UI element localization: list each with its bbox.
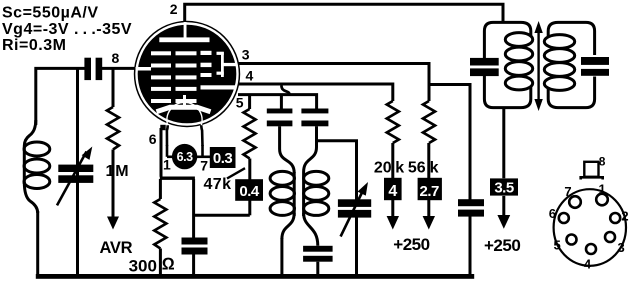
output transformer T2 secondary loops bbox=[544, 35, 574, 91]
wire pin5 row (lower) bbox=[238, 93, 288, 96]
wire cap to tube pin 8 bbox=[102, 67, 136, 70]
anode plate (white bar) bbox=[159, 37, 209, 42]
svg-text:7: 7 bbox=[200, 157, 208, 173]
svg-text:3: 3 bbox=[242, 47, 250, 63]
svg-text:AVR: AVR bbox=[100, 239, 133, 257]
capacitor C10 output secondary bbox=[581, 57, 609, 76]
heater label 6.3 (disc) bbox=[172, 144, 197, 169]
wire right rail lower bbox=[469, 216, 472, 275]
tube V1 envelope (black disc) bbox=[134, 21, 240, 146]
wire S-jog from pin4 wire down bbox=[281, 86, 289, 95]
spigot key pin8 bbox=[584, 162, 598, 177]
capacitor C1 coupling (series, vertical bars) bbox=[84, 58, 102, 80]
capacitor C9 output primary bbox=[470, 58, 499, 76]
svg-text:6.3: 6.3 bbox=[177, 150, 193, 164]
svg-text:4: 4 bbox=[584, 257, 592, 272]
capacitor C7 cathode bbox=[182, 238, 208, 255]
label 3.5 (box) bbox=[490, 178, 518, 196]
wire cathode cap lead bbox=[192, 179, 195, 238]
leader line 47k bbox=[227, 168, 245, 178]
pin8 internal lead bbox=[136, 67, 152, 71]
grid rows left column bbox=[151, 51, 171, 103]
wire cap C5 to bus bbox=[316, 262, 319, 275]
wire trimmer to bus bbox=[355, 210, 358, 275]
svg-text:300: 300 bbox=[129, 256, 157, 275]
svg-text:Ri=0.3M: Ri=0.3M bbox=[2, 37, 66, 54]
svg-text:0.3: 0.3 bbox=[213, 150, 233, 167]
svg-text:6: 6 bbox=[549, 206, 556, 221]
svg-text:1: 1 bbox=[599, 182, 606, 197]
junction bar pins bbox=[160, 176, 195, 179]
capacitor C3 IF left bbox=[267, 109, 293, 127]
svg-text:3.5: 3.5 bbox=[494, 180, 514, 197]
grid rows middle column bbox=[176, 51, 197, 103]
wire cathode cap to bus bbox=[192, 255, 195, 276]
ground bus bottom bbox=[36, 274, 474, 279]
svg-text:4: 4 bbox=[388, 183, 397, 200]
svg-text:3: 3 bbox=[618, 240, 625, 255]
svg-text:k: k bbox=[395, 160, 404, 177]
trimmer capacitor C6 bbox=[338, 182, 371, 237]
wire branch to trimmer bbox=[317, 141, 357, 200]
wire antenna top horizontal to coupling cap bbox=[36, 68, 85, 125]
svg-text:4: 4 bbox=[246, 67, 254, 83]
wire pin3 to 56k bbox=[238, 64, 429, 102]
arrow +250 left (20k) bbox=[387, 200, 399, 230]
svg-text:6: 6 bbox=[149, 131, 157, 147]
grid rows right column bbox=[201, 51, 236, 90]
svg-text:8: 8 bbox=[112, 50, 120, 66]
arrow +250 mid (56k) bbox=[423, 200, 435, 230]
svg-text:5: 5 bbox=[236, 95, 244, 111]
base circle white arc (inside disc) bbox=[167, 102, 202, 125]
tube bottom pin6 wire bbox=[160, 128, 163, 177]
resistor R2 47k bbox=[194, 96, 256, 215]
output transformer T2 primary loops bbox=[505, 33, 532, 90]
resistor R4 56k bbox=[423, 101, 435, 178]
svg-text:Vg4=-3V . . .-35V: Vg4=-3V . . .-35V bbox=[2, 21, 132, 38]
bracket g2-g4 tie to pin3 bbox=[217, 52, 237, 77]
label 0.3 (box) bbox=[210, 147, 236, 168]
wire pin2 top run to output transformer bbox=[185, 4, 503, 23]
wire pin4 to 20k bbox=[238, 84, 393, 101]
capacitor C5 under right coil bbox=[303, 246, 333, 262]
svg-text:1: 1 bbox=[106, 163, 115, 180]
capacitor C8 on right rail bbox=[458, 199, 484, 216]
arrow +250 right (3.5) bbox=[497, 196, 510, 229]
pin hole 3 bbox=[605, 232, 615, 242]
resistor R1 1M AVC bbox=[107, 68, 119, 229]
svg-text:+250: +250 bbox=[393, 235, 429, 254]
output transformer T2 primary outline bbox=[484, 22, 530, 107]
tube socket diagram bbox=[554, 162, 626, 266]
svg-text:M: M bbox=[115, 163, 128, 180]
svg-text:k: k bbox=[430, 160, 439, 177]
svg-text:2: 2 bbox=[621, 208, 628, 223]
wire variable cap rail bbox=[76, 68, 79, 275]
svg-text:2.7: 2.7 bbox=[420, 183, 440, 200]
label 2.7 (box) bbox=[418, 178, 442, 200]
pin hole 1 bbox=[596, 194, 608, 206]
cathode hat bbox=[157, 107, 211, 112]
pin hole 4 bbox=[586, 244, 596, 254]
svg-text:5: 5 bbox=[554, 237, 561, 252]
inductor L1 antenna coil bbox=[24, 120, 50, 275]
pin hole 6 bbox=[559, 213, 569, 223]
wire left IF cap lead bbox=[280, 95, 283, 109]
svg-text:1: 1 bbox=[163, 157, 171, 173]
wire primary bottom to 3.5 bbox=[502, 108, 505, 179]
transformer T1 IF right coil bbox=[304, 126, 329, 246]
wire to right IF cap bbox=[288, 95, 317, 109]
variable capacitor C2 tuning bbox=[57, 147, 93, 206]
svg-text:+250: +250 bbox=[484, 236, 520, 255]
pin2 internal lead bbox=[184, 22, 187, 38]
pin6 node bbox=[160, 125, 165, 130]
svg-text:56: 56 bbox=[408, 160, 426, 177]
socket circle bbox=[554, 189, 626, 266]
core arrow (tuning) bbox=[534, 21, 542, 111]
wire branch y84 to right rail bbox=[429, 85, 470, 200]
pin hole 5 bbox=[567, 235, 577, 245]
cathode internal lead bbox=[183, 95, 186, 105]
svg-text:Ω: Ω bbox=[162, 254, 175, 273]
label 4 (box) bbox=[384, 178, 402, 200]
svg-text:20: 20 bbox=[374, 160, 392, 177]
resistor R3 20k bbox=[387, 101, 399, 178]
svg-text:2: 2 bbox=[170, 1, 178, 17]
label 0.4 (box) bbox=[235, 179, 263, 201]
resistor R5 300 ohm bbox=[154, 179, 166, 275]
transformer T1 IF left coil bbox=[270, 126, 294, 275]
pin hole 2 bbox=[610, 213, 620, 223]
capacitor C4 IF right bbox=[301, 109, 328, 127]
output transformer T2 secondary outline bbox=[548, 22, 594, 107]
svg-text:7: 7 bbox=[564, 184, 571, 199]
pin hole 7 bbox=[569, 196, 581, 208]
heater stubs pins 1,7 bbox=[167, 145, 210, 157]
svg-text:0.4: 0.4 bbox=[239, 183, 260, 200]
base sides (below disc) bbox=[167, 125, 203, 146]
svg-text:Sc=550µA/V: Sc=550µA/V bbox=[2, 4, 99, 21]
svg-text:8: 8 bbox=[599, 155, 606, 169]
